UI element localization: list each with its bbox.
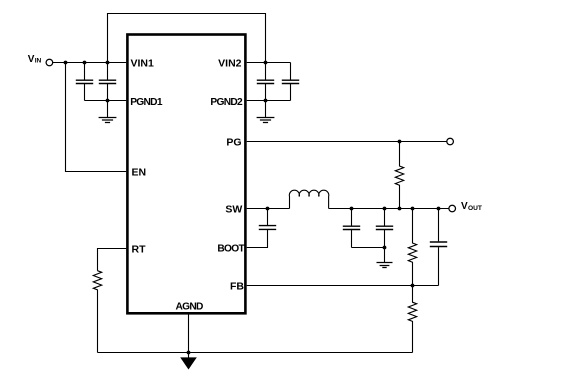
node PGND1 junction — [106, 99, 110, 103]
terminal PG — [447, 138, 454, 145]
node C6 junction — [350, 207, 354, 211]
node FB junction — [411, 284, 415, 288]
svg-text:V: V — [461, 201, 468, 212]
capacitor C3 — [257, 63, 274, 101]
IC U1 — [127, 35, 245, 314]
node C1 junction — [83, 61, 87, 65]
terminal VOUT — [449, 205, 456, 212]
ground G1 — [99, 101, 117, 123]
svg-text:FB: FB — [230, 281, 244, 293]
wire bottom ground rail — [98, 352, 413, 354]
resistor R3 — [408, 286, 416, 353]
node VIN label — [28, 54, 42, 65]
svg-text:PGND2: PGND2 — [210, 97, 243, 108]
node output ground junction — [383, 246, 387, 250]
node AGND junction — [187, 351, 191, 355]
svg-text:RT: RT — [132, 244, 147, 256]
wire FB — [247, 285, 439, 287]
node EN junction — [64, 61, 68, 65]
svg-text:EN: EN — [132, 167, 147, 179]
resistor R4 — [93, 271, 101, 353]
terminal VIN — [46, 59, 53, 66]
inductor L1 — [289, 190, 328, 208]
wire top crossover — [108, 14, 266, 63]
node R2 top junction — [411, 207, 415, 211]
resistor R1 — [395, 142, 403, 209]
node R1 bottom junction — [398, 207, 402, 211]
node VIN1 top junction — [106, 61, 110, 65]
wire output caps ground — [352, 247, 385, 249]
wire PG — [247, 141, 447, 143]
wire RT — [98, 249, 127, 271]
wire EN — [66, 63, 127, 172]
wire SW — [247, 208, 290, 210]
svg-text:PG: PG — [226, 137, 241, 149]
node SW-BOOT junction — [266, 207, 270, 211]
resistor R2 — [408, 209, 416, 286]
wire SW output — [329, 208, 450, 210]
wire AGND stem — [188, 314, 190, 353]
svg-text:IN: IN — [35, 57, 42, 64]
capacitor C7 — [376, 209, 393, 248]
svg-text:AGND: AGND — [176, 301, 204, 312]
node C8 top junction — [437, 207, 441, 211]
capacitor C8 — [430, 209, 447, 286]
node C7 junction — [383, 207, 387, 211]
svg-text:V: V — [28, 54, 35, 65]
ground G3 — [377, 248, 393, 268]
node PGND2 junction — [264, 99, 268, 103]
wire VIN2 — [247, 62, 291, 64]
ground arrow AGND — [180, 353, 197, 370]
capacitor C2 — [99, 63, 116, 101]
node VOUT label — [461, 201, 482, 212]
wire PGND1 — [85, 100, 127, 102]
svg-text:VIN2: VIN2 — [218, 58, 242, 70]
ground G2 — [257, 101, 275, 123]
node PG junction — [398, 140, 402, 144]
capacitor C1 — [76, 63, 93, 101]
node VIN2 junction — [264, 61, 268, 65]
capacitor C5 — [259, 209, 276, 230]
svg-text:SW: SW — [225, 204, 242, 216]
svg-text:VIN1: VIN1 — [131, 58, 155, 70]
capacitor C4 — [282, 63, 299, 101]
capacitor C6 — [343, 209, 360, 248]
wire PGND2 — [247, 100, 291, 102]
svg-text:BOOT: BOOT — [217, 244, 245, 255]
wire BOOT — [247, 230, 268, 248]
wire VIN input — [53, 62, 127, 64]
svg-text:PGND1: PGND1 — [130, 97, 163, 108]
svg-text:OUT: OUT — [468, 205, 482, 212]
